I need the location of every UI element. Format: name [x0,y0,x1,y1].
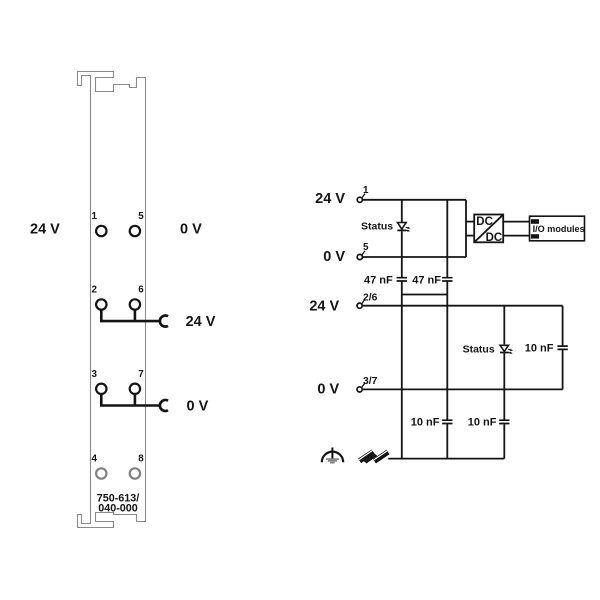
LED D2 gap [502,344,507,353]
capacitor C1 plates [397,278,407,281]
wire vertical branch D [446,306,448,459]
connector arc row3 [160,400,168,411]
svg-text:7: 7 [138,369,144,380]
svg-text:6: 6 [138,285,144,296]
wire row2 horizontal [100,320,160,323]
wire 0V rail upper [362,256,466,258]
svg-text:5: 5 [363,242,369,253]
LED D2 light arrows [508,348,511,351]
svg-text:24 V: 24 V [186,314,216,330]
node 5 circle [357,254,362,259]
svg-text:0 V: 0 V [317,382,339,398]
svg-text:10 nF: 10 nF [468,416,497,428]
svg-text:10 nF: 10 nF [525,343,554,355]
terminal 6 [130,299,140,309]
wire vertical branch E (LED) [503,306,505,459]
node 5 tick [362,251,365,255]
capacitor C5 gap [502,421,506,423]
wire DC to I/O top [503,221,531,223]
svg-text:4: 4 [92,454,98,465]
svg-text:24 V: 24 V [309,299,339,315]
DIN rail symbol [359,451,388,464]
capacitor C1 gap [400,278,404,280]
svg-text:3: 3 [92,369,98,380]
terminal 8 (gray) [130,468,140,478]
module outline 750-613 [78,72,146,528]
I/O pad top [531,219,539,224]
svg-text:1: 1 [92,211,98,222]
I/O modules box [530,216,585,241]
wire terminal 6 down [134,310,137,321]
wire 24V rail lower [362,305,562,307]
svg-text:2/6: 2/6 [363,293,378,304]
wire vertical branch B [446,200,448,306]
LED D1 gap [400,222,405,231]
svg-text:0 V: 0 V [180,221,202,237]
terminal 1 [96,226,106,236]
ground symbol stem [331,448,333,460]
node 2/6 tick [362,300,365,304]
terminal 3 [96,384,106,394]
node 2/6 circle [357,303,362,308]
svg-text:0 V: 0 V [323,249,345,265]
LED D1 cathode bar [397,229,406,231]
wire terminal 7 down [134,394,137,406]
wire 0V rail lower [362,388,562,390]
wire row3 horizontal [100,404,160,407]
LED D2 cathode bar [500,352,509,354]
svg-text:1: 1 [363,185,369,196]
wire 24V rail top [362,199,466,201]
DC/DC diagonal [475,215,503,241]
wire terminal 2 down [100,310,103,321]
node 3/7 circle [357,387,362,392]
svg-text:47 nF: 47 nF [364,274,393,286]
I/O pad bottom [531,234,539,238]
wire bottom bus [388,458,504,460]
wire vertical branch A (LED) [401,200,403,306]
svg-text:3/7: 3/7 [363,376,378,387]
svg-text:Status: Status [463,344,495,356]
connector arc row2 [160,316,168,327]
ground symbol earth bar 2 [328,460,337,462]
terminal 7 [130,384,140,394]
svg-text:0 V: 0 V [187,399,209,415]
wire stub DC top [466,221,474,223]
wire stub DC bottom [466,235,474,237]
wire vertical branch F (right) [562,306,564,390]
terminal 4 (gray) [96,468,106,478]
node 3/7 tick [362,383,365,387]
terminal 5 [130,226,140,236]
ground symbol earth bar 1 [326,458,339,460]
svg-text:8: 8 [138,454,144,465]
wire vertical branch C [401,306,403,459]
svg-text:DC: DC [476,216,493,228]
svg-text:47 nF: 47 nF [412,274,441,286]
capacitor C5 plates [499,420,509,423]
svg-text:DC: DC [486,232,503,244]
wire vertical right edge upper box [465,200,467,257]
capacitor C3 gap [561,347,565,349]
capacitor C4 plates [442,420,452,423]
ground symbol arc [322,452,343,463]
svg-text:24 V: 24 V [30,221,60,237]
svg-text:2: 2 [92,285,98,296]
svg-text:040-000: 040-000 [98,503,138,515]
svg-text:Status: Status [361,221,393,233]
wire DC to I/O bottom [503,235,531,237]
LED D1 triangle [398,223,407,230]
node 1 tick [362,194,365,198]
ground symbol earth bar 3 [330,462,335,464]
LED D1 light arrows [406,226,409,229]
capacitor C4 gap [445,421,449,423]
node 1 circle [357,197,362,202]
DC/DC converter box [474,215,503,243]
wire terminal 3 down [100,394,103,406]
terminal 2 [96,299,106,309]
capacitor C3 plates [557,346,567,349]
capacitor C2 gap [445,278,449,280]
svg-text:5: 5 [138,211,144,222]
svg-text:10 nF: 10 nF [411,416,440,428]
svg-text:24 V: 24 V [315,191,345,207]
wire jumper between C1 C2 [402,294,448,296]
svg-text:I/O modules: I/O modules [533,224,585,234]
capacitor C2 plates [442,278,452,281]
LED D2 triangle [500,345,508,351]
